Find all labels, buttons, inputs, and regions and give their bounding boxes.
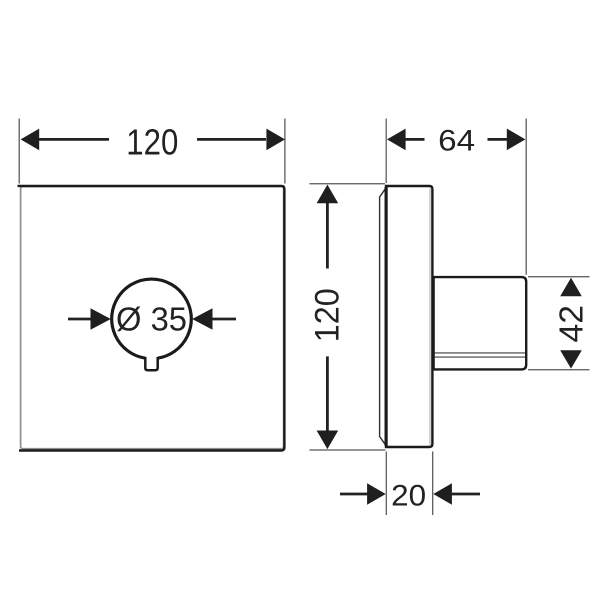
side view: plate inner highlight line <box>429 189 431 446</box>
front view: square plate black top/right/bottom edges <box>18 186 285 451</box>
dim 64: dimension line segments <box>405 138 507 141</box>
dim 20: left arrowhead <box>367 483 386 505</box>
dim 20: left leader line <box>340 493 367 496</box>
svg-text:Ø 35: Ø 35 <box>116 301 187 338</box>
front view: square escutcheon plate (gray edges) <box>21 187 284 449</box>
svg-text:120: 120 <box>309 288 347 342</box>
dim 42: top extension line <box>528 276 590 278</box>
dim 120 top: left arrowhead <box>21 129 40 151</box>
dia 35 right leader line <box>212 318 236 321</box>
svg-text:120: 120 <box>126 122 178 163</box>
side view: plate back chamfer <box>380 188 386 445</box>
dim 20: right extension line <box>432 452 434 516</box>
dim 42: bottom arrowhead <box>560 350 582 368</box>
dim 120 side: bottom arrowhead <box>317 431 339 450</box>
side view: plate face <box>386 186 432 447</box>
knob rim lines <box>435 353 526 357</box>
dim 42: bottom extension line <box>528 369 590 371</box>
dim 120 top: left extension line <box>18 119 20 184</box>
dim 120 top: dimension line segments <box>39 138 266 141</box>
dim 120 top: right arrowhead <box>266 129 285 151</box>
dim 64: right arrowhead <box>507 129 526 151</box>
dim 120 side: top extension line <box>310 183 386 185</box>
dia 35 left leader line <box>68 318 91 321</box>
side view: knob body <box>434 277 527 369</box>
svg-text:64: 64 <box>438 124 475 157</box>
dim 20: left extension line <box>385 452 387 516</box>
dia 35 left arrowhead <box>91 308 111 330</box>
dim 120 side: top arrowhead <box>317 185 339 204</box>
dim 42: top arrowhead <box>560 278 582 296</box>
handle bottom tab <box>145 357 157 370</box>
dia 35 right arrowhead <box>192 308 212 330</box>
dim 20: right arrowhead <box>433 483 452 505</box>
svg-text:42: 42 <box>552 305 589 343</box>
handle circle (open at bottom tab) <box>112 279 192 358</box>
dim 64: right extension line <box>525 119 527 275</box>
dim 120 top: right extension line <box>284 119 286 184</box>
svg-text:20: 20 <box>391 479 426 512</box>
dim 64: left extension line <box>385 119 387 184</box>
dim 20: right leader line <box>452 493 480 496</box>
dim 120 side: dimension line segments <box>326 203 329 431</box>
dim 120 side: bottom extension line <box>310 449 386 451</box>
side view: plate left edge emphasis <box>385 187 388 446</box>
dim 64: left arrowhead <box>387 129 406 151</box>
